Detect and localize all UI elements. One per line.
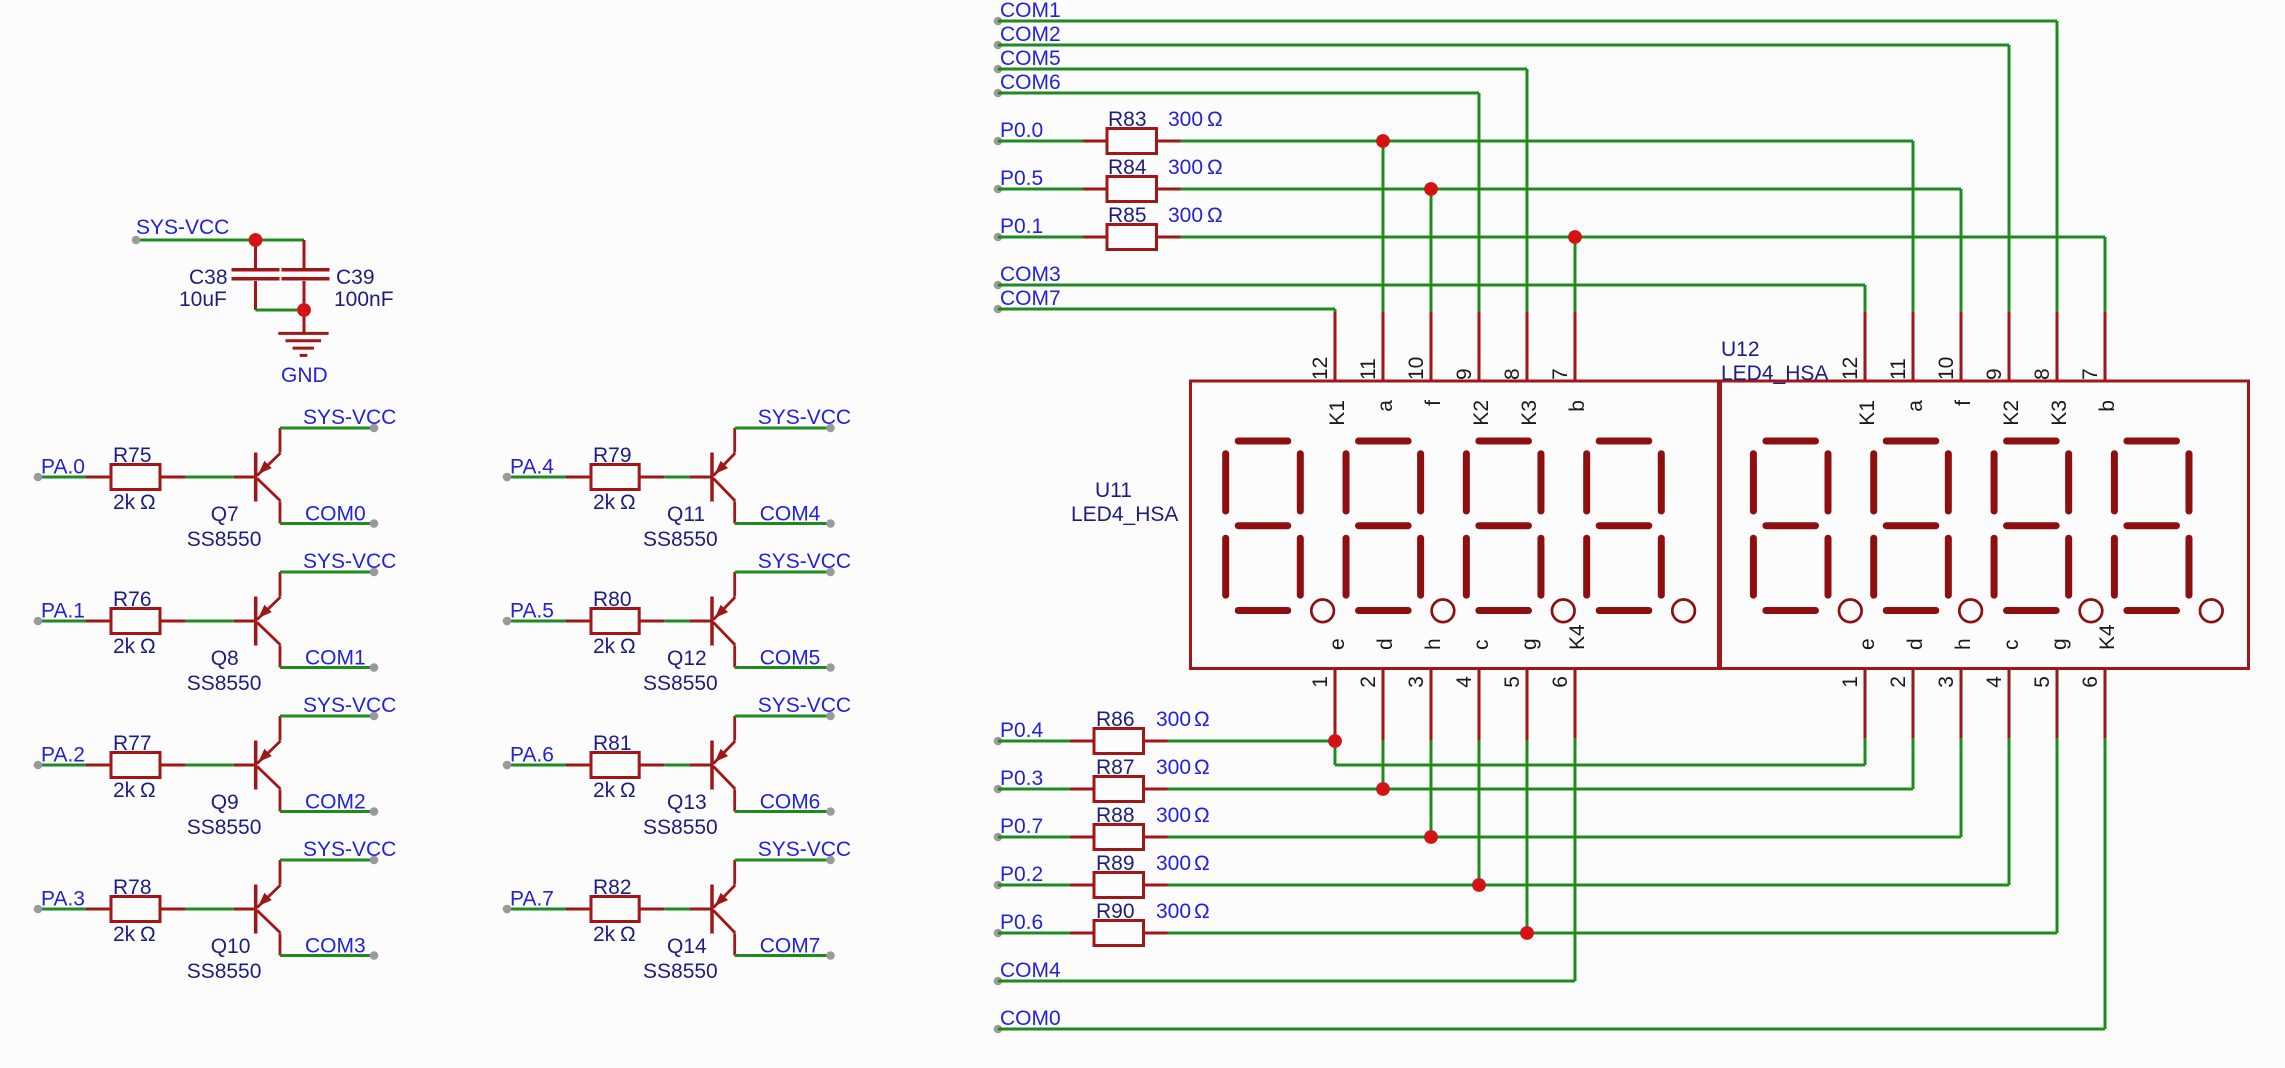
svg-text:h: h bbox=[1952, 638, 1975, 650]
svg-text:COM0: COM0 bbox=[1000, 1007, 1061, 1030]
svg-text:C38: C38 bbox=[189, 266, 228, 289]
svg-text:3: 3 bbox=[1935, 676, 1958, 688]
svg-text:300: 300 bbox=[1156, 900, 1191, 923]
svg-text:K2: K2 bbox=[2000, 400, 2023, 426]
svg-text:SS8550: SS8550 bbox=[643, 960, 718, 983]
svg-text:300: 300 bbox=[1156, 756, 1191, 779]
svg-text:4: 4 bbox=[1983, 676, 2006, 688]
svg-text:COM6: COM6 bbox=[1000, 71, 1061, 94]
svg-text:SS8550: SS8550 bbox=[643, 816, 718, 839]
svg-text:6: 6 bbox=[2079, 676, 2102, 688]
svg-text:SYS-VCC: SYS-VCC bbox=[136, 216, 229, 239]
svg-text:11: 11 bbox=[1887, 358, 1910, 380]
svg-text:U12: U12 bbox=[1721, 338, 1760, 361]
svg-text:Ω: Ω bbox=[620, 491, 636, 514]
svg-text:K3: K3 bbox=[1518, 400, 1541, 426]
svg-text:Ω: Ω bbox=[1194, 756, 1210, 779]
svg-text:R89: R89 bbox=[1096, 852, 1135, 875]
svg-text:COM7: COM7 bbox=[1000, 287, 1061, 310]
svg-text:SS8550: SS8550 bbox=[187, 960, 262, 983]
svg-text:K4: K4 bbox=[2096, 624, 2119, 650]
svg-text:COM7: COM7 bbox=[760, 935, 821, 958]
svg-text:R81: R81 bbox=[593, 732, 632, 755]
svg-text:C39: C39 bbox=[336, 266, 375, 289]
svg-text:P0.4: P0.4 bbox=[1000, 719, 1044, 742]
svg-text:Ω: Ω bbox=[1194, 708, 1210, 731]
svg-text:K1: K1 bbox=[1326, 400, 1349, 426]
svg-text:PA.6: PA.6 bbox=[510, 744, 554, 767]
svg-text:6: 6 bbox=[1549, 676, 1572, 688]
svg-text:Ω: Ω bbox=[1194, 900, 1210, 923]
svg-text:8: 8 bbox=[2031, 368, 2054, 380]
svg-text:300: 300 bbox=[1168, 108, 1203, 131]
svg-text:Ω: Ω bbox=[620, 923, 636, 946]
svg-text:300: 300 bbox=[1156, 708, 1191, 731]
svg-text:SS8550: SS8550 bbox=[643, 672, 718, 695]
svg-text:R88: R88 bbox=[1096, 804, 1135, 827]
svg-text:Q10: Q10 bbox=[211, 935, 251, 958]
svg-text:R84: R84 bbox=[1108, 156, 1147, 179]
svg-text:5: 5 bbox=[1501, 676, 1524, 688]
svg-text:LED4_HSA: LED4_HSA bbox=[1721, 362, 1828, 385]
svg-text:R90: R90 bbox=[1096, 900, 1135, 923]
svg-text:R86: R86 bbox=[1096, 708, 1135, 731]
svg-text:PA.7: PA.7 bbox=[510, 888, 554, 911]
svg-text:R80: R80 bbox=[593, 588, 632, 611]
svg-text:Q13: Q13 bbox=[667, 791, 707, 814]
svg-text:Ω: Ω bbox=[140, 635, 156, 658]
svg-text:Ω: Ω bbox=[620, 635, 636, 658]
svg-text:300: 300 bbox=[1168, 204, 1203, 227]
svg-text:PA.2: PA.2 bbox=[41, 744, 85, 767]
svg-text:COM4: COM4 bbox=[760, 503, 821, 526]
svg-text:Ω: Ω bbox=[1207, 156, 1223, 179]
svg-text:12: 12 bbox=[1309, 357, 1332, 380]
svg-text:K3: K3 bbox=[2048, 400, 2071, 426]
svg-text:K1: K1 bbox=[1856, 400, 1879, 426]
svg-text:R76: R76 bbox=[113, 588, 152, 611]
svg-text:h: h bbox=[1422, 638, 1445, 650]
svg-text:2k: 2k bbox=[113, 635, 136, 658]
svg-text:LED4_HSA: LED4_HSA bbox=[1071, 503, 1178, 526]
svg-text:Q7: Q7 bbox=[211, 503, 239, 526]
svg-text:Ω: Ω bbox=[1194, 852, 1210, 875]
svg-text:Ω: Ω bbox=[620, 779, 636, 802]
svg-text:10uF: 10uF bbox=[179, 288, 227, 311]
svg-text:11: 11 bbox=[1357, 358, 1380, 380]
svg-text:Ω: Ω bbox=[1194, 804, 1210, 827]
svg-text:COM5: COM5 bbox=[1000, 47, 1061, 70]
svg-text:1: 1 bbox=[1839, 676, 1862, 688]
svg-text:Q8: Q8 bbox=[211, 647, 239, 670]
svg-text:COM5: COM5 bbox=[760, 647, 821, 670]
svg-text:COM6: COM6 bbox=[760, 791, 821, 814]
svg-text:P0.5: P0.5 bbox=[1000, 167, 1043, 190]
svg-text:R87: R87 bbox=[1096, 756, 1135, 779]
svg-text:b: b bbox=[1566, 400, 1589, 412]
svg-text:SYS-VCC: SYS-VCC bbox=[758, 838, 851, 861]
svg-text:SYS-VCC: SYS-VCC bbox=[303, 406, 396, 429]
svg-text:2k: 2k bbox=[593, 923, 616, 946]
svg-text:SS8550: SS8550 bbox=[187, 528, 262, 551]
svg-text:8: 8 bbox=[1501, 368, 1524, 380]
svg-text:3: 3 bbox=[1405, 676, 1428, 688]
svg-text:7: 7 bbox=[2079, 368, 2102, 380]
svg-text:9: 9 bbox=[1453, 368, 1476, 380]
svg-text:P0.7: P0.7 bbox=[1000, 815, 1043, 838]
svg-text:COM3: COM3 bbox=[1000, 263, 1061, 286]
svg-text:U11: U11 bbox=[1095, 479, 1132, 502]
svg-text:Q14: Q14 bbox=[667, 935, 707, 958]
svg-text:R83: R83 bbox=[1108, 108, 1147, 131]
svg-text:SYS-VCC: SYS-VCC bbox=[303, 550, 396, 573]
svg-text:SS8550: SS8550 bbox=[187, 672, 262, 695]
svg-text:2k: 2k bbox=[593, 779, 616, 802]
svg-text:PA.3: PA.3 bbox=[41, 888, 85, 911]
svg-text:7: 7 bbox=[1549, 368, 1572, 380]
svg-text:P0.0: P0.0 bbox=[1000, 119, 1043, 142]
svg-text:COM2: COM2 bbox=[305, 791, 366, 814]
svg-text:10: 10 bbox=[1405, 357, 1428, 380]
svg-text:SYS-VCC: SYS-VCC bbox=[303, 694, 396, 717]
svg-text:Q12: Q12 bbox=[667, 647, 707, 670]
svg-text:100nF: 100nF bbox=[334, 288, 394, 311]
svg-text:2k: 2k bbox=[113, 491, 136, 514]
svg-text:R77: R77 bbox=[113, 732, 152, 755]
svg-text:Q11: Q11 bbox=[667, 503, 705, 526]
svg-text:K4: K4 bbox=[1566, 624, 1589, 650]
svg-text:P0.3: P0.3 bbox=[1000, 767, 1043, 790]
svg-text:P0.1: P0.1 bbox=[1000, 215, 1043, 238]
svg-text:2k: 2k bbox=[113, 923, 136, 946]
svg-text:SYS-VCC: SYS-VCC bbox=[303, 838, 396, 861]
svg-text:R78: R78 bbox=[113, 876, 152, 899]
svg-text:SYS-VCC: SYS-VCC bbox=[758, 406, 851, 429]
svg-text:300: 300 bbox=[1156, 804, 1191, 827]
svg-text:Ω: Ω bbox=[140, 491, 156, 514]
svg-text:PA.4: PA.4 bbox=[510, 456, 554, 479]
svg-text:a: a bbox=[1374, 400, 1397, 412]
svg-text:9: 9 bbox=[1983, 368, 2006, 380]
svg-text:P0.6: P0.6 bbox=[1000, 911, 1043, 934]
svg-text:2: 2 bbox=[1887, 676, 1910, 688]
svg-text:300: 300 bbox=[1168, 156, 1203, 179]
svg-text:Ω: Ω bbox=[140, 779, 156, 802]
svg-text:b: b bbox=[2096, 400, 2119, 412]
svg-text:2k: 2k bbox=[113, 779, 136, 802]
svg-text:GND: GND bbox=[281, 364, 328, 387]
svg-text:c: c bbox=[2000, 640, 2023, 651]
svg-text:PA.0: PA.0 bbox=[41, 456, 85, 479]
svg-text:12: 12 bbox=[1839, 357, 1862, 380]
svg-text:Ω: Ω bbox=[1207, 108, 1223, 131]
svg-text:R82: R82 bbox=[593, 876, 632, 899]
svg-text:1: 1 bbox=[1309, 676, 1332, 688]
svg-text:2k: 2k bbox=[593, 635, 616, 658]
svg-text:5: 5 bbox=[2031, 676, 2054, 688]
svg-text:COM3: COM3 bbox=[305, 935, 366, 958]
svg-text:f: f bbox=[1422, 400, 1445, 406]
svg-text:g: g bbox=[1518, 638, 1541, 650]
svg-text:COM0: COM0 bbox=[305, 503, 366, 526]
svg-text:e: e bbox=[1856, 638, 1879, 650]
svg-text:f: f bbox=[1952, 400, 1975, 406]
svg-text:g: g bbox=[2048, 638, 2071, 650]
svg-text:2: 2 bbox=[1357, 676, 1380, 688]
svg-text:e: e bbox=[1326, 638, 1349, 650]
svg-text:c: c bbox=[1470, 640, 1493, 651]
svg-text:COM1: COM1 bbox=[305, 647, 366, 670]
svg-text:10: 10 bbox=[1935, 357, 1958, 380]
svg-text:2k: 2k bbox=[593, 491, 616, 514]
svg-text:PA.5: PA.5 bbox=[510, 600, 554, 623]
svg-text:4: 4 bbox=[1453, 676, 1476, 688]
svg-text:a: a bbox=[1904, 400, 1927, 412]
svg-text:Ω: Ω bbox=[1207, 204, 1223, 227]
svg-text:PA.1: PA.1 bbox=[41, 600, 85, 623]
svg-text:SS8550: SS8550 bbox=[187, 816, 262, 839]
svg-text:COM1: COM1 bbox=[1000, 0, 1061, 22]
svg-text:Ω: Ω bbox=[140, 923, 156, 946]
svg-text:Q9: Q9 bbox=[211, 791, 239, 814]
svg-text:d: d bbox=[1374, 638, 1397, 650]
svg-text:R85: R85 bbox=[1108, 204, 1147, 227]
svg-text:R75: R75 bbox=[113, 444, 152, 467]
svg-text:300: 300 bbox=[1156, 852, 1191, 875]
svg-text:SYS-VCC: SYS-VCC bbox=[758, 550, 851, 573]
svg-text:SS8550: SS8550 bbox=[643, 528, 718, 551]
svg-text:R79: R79 bbox=[593, 444, 632, 467]
svg-text:P0.2: P0.2 bbox=[1000, 863, 1043, 886]
svg-text:COM2: COM2 bbox=[1000, 23, 1061, 46]
svg-text:d: d bbox=[1904, 638, 1927, 650]
svg-text:COM4: COM4 bbox=[1000, 959, 1061, 982]
svg-text:K2: K2 bbox=[1470, 400, 1493, 426]
svg-text:SYS-VCC: SYS-VCC bbox=[758, 694, 851, 717]
